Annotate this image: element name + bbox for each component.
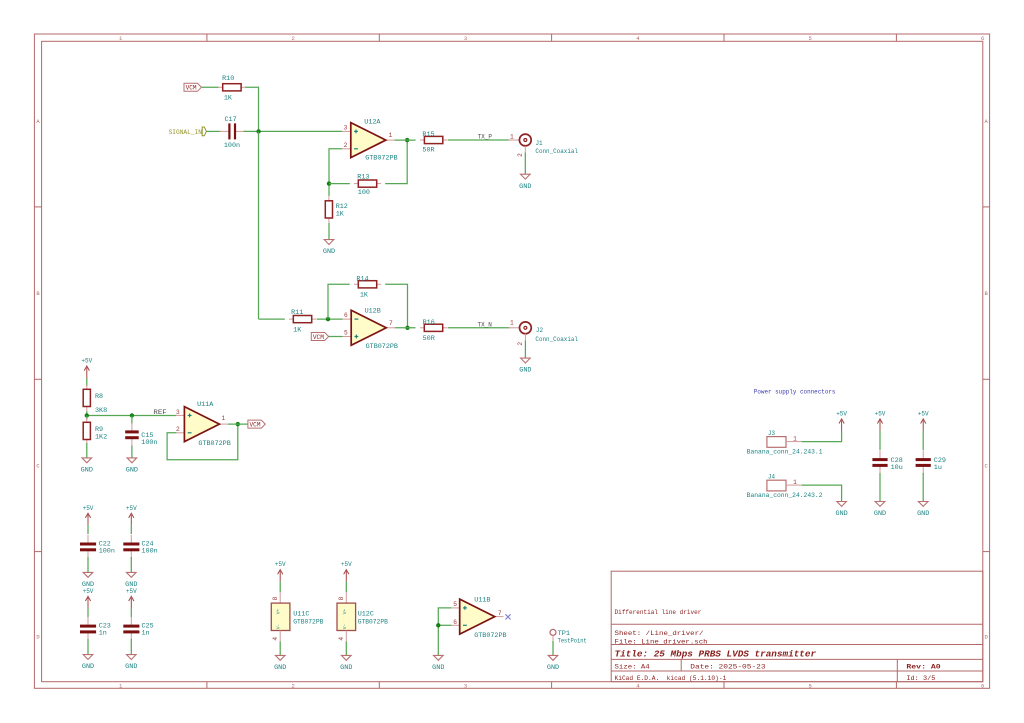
svg-text:2: 2 [291,35,294,42]
svg-text:B: B [985,290,989,297]
svg-text:1: 1 [510,133,514,140]
svg-text:8: 8 [272,596,279,600]
power +5V above U12C [345,571,347,582]
svg-text:V-: V- [342,624,348,630]
svg-text:Power supply connectors: Power supply connectors [754,389,836,396]
svg-text:GND: GND [274,664,286,671]
svg-text:GTB072PB: GTB072PB [474,632,506,640]
svg-text:+5V: +5V [81,358,92,365]
ground under U12C [342,655,352,660]
resistor R15 [420,139,424,141]
resistor R8 [86,385,88,390]
wire TP1 to GND [552,641,554,655]
svg-text:5: 5 [809,682,812,689]
test point TP1 [550,629,556,635]
pin 4 stub U12C [345,631,347,642]
svg-text:7: 7 [498,610,502,617]
svg-text:V+: V+ [342,609,348,615]
svg-text:1K2: 1K2 [95,434,107,442]
capacitor C28 [879,451,881,460]
svg-text:50R: 50R [422,146,434,154]
wire R15 to J1 (net TX_P) [448,139,510,141]
wire U11B inputs tied [438,608,451,641]
svg-text:6: 6 [344,312,348,319]
global label VCM (R10 input) [184,83,201,91]
wire U12A pin 2 feedback [329,149,342,196]
svg-text:C: C [985,463,989,470]
svg-text:Id: 3/5: Id: 3/5 [906,675,935,683]
svg-text:Differential line driver: Differential line driver [615,609,702,616]
wire J1 shield to GND [524,153,526,175]
wire C15 to GND [131,446,133,458]
banana connector J4 [767,480,786,491]
svg-text:+5V: +5V [83,588,94,595]
svg-text:TX_N: TX_N [478,321,492,329]
svg-text:VCM: VCM [313,334,324,341]
banana connector J3 [767,437,786,448]
svg-text:GND: GND [836,510,848,517]
svg-text:1u: 1u [934,464,942,472]
svg-text:R14: R14 [356,275,368,283]
pin 4 stub U11C [279,631,281,642]
junction C17/R10 node [256,129,260,133]
svg-text:GTB072PB: GTB072PB [198,440,230,448]
op-amp U11B [451,607,460,609]
pin 1 stub J3 [786,441,802,443]
pin 2 stub J1 [524,146,526,153]
title block column lines [680,659,682,671]
ground under C15 [127,458,137,463]
svg-text:SIGNAL_IN: SIGNAL_IN [169,129,202,136]
svg-text:GTB072PB: GTB072PB [293,618,323,626]
op-amp power unit U12C [337,603,356,630]
svg-text:KiCad E.D.A. kicad (5.1.10)-1: KiCad E.D.A. kicad (5.1.10)-1 [615,675,727,683]
wire U11B node to GND [437,641,439,655]
svg-text:6: 6 [453,619,457,626]
svg-text:1K: 1K [360,291,369,299]
ground under C29 [918,502,928,507]
wire +5V to C24 [130,525,132,534]
svg-text:+5V: +5V [126,588,137,595]
wire +5V to C23 [87,608,89,617]
svg-text:Sheet: /Line_driver/: Sheet: /Line_driver/ [615,630,704,638]
capacitor C24 [130,535,132,544]
svg-text:100n: 100n [224,142,240,150]
power +5V above C24 [130,515,132,526]
svg-text:Size: A4: Size: A4 [615,664,650,672]
pin 8 stub U11C [279,592,281,603]
wire C22 to GND [87,557,89,572]
svg-text:TestPoint: TestPoint [558,637,587,644]
resistor R14 [354,283,358,285]
svg-text:Banana_conn_24.243.1: Banana_conn_24.243.1 [747,448,823,455]
svg-text:1n: 1n [99,630,107,638]
svg-text:REF: REF [153,409,166,417]
wire J2 shield to GND [524,341,526,359]
svg-text:4: 4 [272,637,279,641]
svg-text:3K8: 3K8 [95,407,107,415]
pin 1 stub J2 [508,327,519,329]
svg-text:+5V: +5V [83,505,94,512]
wire R8 to node REF [87,411,177,415]
svg-text:3: 3 [344,125,348,132]
svg-text:U12B: U12B [365,308,381,316]
resistor R10 [218,86,222,88]
svg-text:U11A: U11A [197,401,214,409]
pin 2 stub J2 [524,334,526,341]
wire J4 to GND [802,485,842,501]
svg-text:GTB072PB: GTB072PB [365,154,397,162]
title block row lines [611,623,983,625]
svg-text:J3: J3 [768,430,775,437]
svg-text:Rev: A0: Rev: A0 [906,664,940,672]
svg-text:GND: GND [519,367,531,374]
ground under J4 wire [837,502,847,507]
wire +5V to C28 [879,431,881,450]
coaxial connector J1 [519,134,531,146]
junction R8/R9 node [85,413,89,417]
svg-text:R8: R8 [95,393,103,401]
svg-text:GND: GND [81,467,93,474]
svg-text:1: 1 [793,479,797,486]
global label VCM (U12B pin 5) [311,333,328,341]
wire +5V to C22 [87,525,89,534]
svg-text:Date: 2025-05-23: Date: 2025-05-23 [690,664,765,672]
svg-text:U12A: U12A [364,119,381,127]
power +5V above J3 wire [841,420,843,431]
svg-text:D: D [36,634,40,641]
svg-text:2: 2 [517,153,524,157]
svg-text:GND: GND [874,510,886,517]
wire U12C pin 4 to GND [345,642,347,656]
svg-text:10u: 10u [891,464,903,472]
svg-text:GND: GND [82,663,94,670]
power +5V above C25 [130,598,132,609]
wire R16 to J2 (net TX_N) [448,327,510,329]
op-amp power unit U11C [271,603,290,630]
junction feedback node [327,181,331,185]
wire C24 to GND [130,557,132,572]
svg-text:TX_P: TX_P [478,133,492,141]
wire R11 to U12B pin 6 [317,318,343,320]
wire R9 to GND [86,443,88,458]
svg-text:V-: V- [276,624,282,630]
wire J3 to +5V [802,431,842,442]
svg-text:VCM: VCM [186,85,197,92]
svg-text:GND: GND [917,510,929,517]
svg-text:1: 1 [389,132,393,139]
svg-text:R10: R10 [222,75,234,83]
svg-text:GND: GND [519,183,531,190]
junction U11A output [236,422,240,426]
power +5V above C29 [922,420,924,431]
svg-text:Conn_Coaxial: Conn_Coaxial [535,336,578,343]
svg-text:File: Line_driver.sch: File: Line_driver.sch [615,638,708,646]
svg-text:3: 3 [464,682,467,689]
svg-text:50R: 50R [423,335,435,343]
resistor R12 [328,196,330,201]
svg-text:6: 6 [981,35,984,42]
power +5V above C22 [87,515,89,526]
ground under C25 [127,655,137,660]
svg-text:GND: GND [125,663,137,670]
op-amp U12B [343,318,352,320]
junction C15 node [130,413,134,417]
svg-text:J1: J1 [536,140,543,147]
frame row ticks right [983,206,990,208]
junction U12A output [405,138,409,142]
svg-text:+5V: +5V [341,561,352,568]
wire up to R14 [328,284,350,319]
ground under C23 [83,655,93,660]
svg-text:+5V: +5V [918,410,929,417]
wire +5V to U11C pin 8 [279,582,281,592]
svg-text:D: D [985,634,989,641]
power +5V above C23 [87,598,89,609]
resistor R13 [354,183,358,185]
svg-text:1n: 1n [142,630,150,638]
svg-text:+5V: +5V [275,561,286,568]
pin stub TP1 [552,635,554,641]
capacitor C23 [87,617,89,626]
svg-text:+5V: +5V [836,410,847,417]
ground under R9 [82,458,92,463]
svg-text:1K: 1K [336,211,345,219]
capacitor C15 [131,423,133,432]
svg-text:Conn_Coaxial: Conn_Coaxial [535,148,578,155]
svg-text:GTB072PB: GTB072PB [366,343,398,351]
svg-text:U11B: U11B [474,596,490,604]
wire feedback node to R13 [329,183,350,185]
svg-text:GND: GND [323,248,335,255]
svg-text:6: 6 [981,682,984,689]
wire +5V to R8 [86,378,88,386]
svg-text:2: 2 [291,682,294,689]
ground under C28 [875,502,885,507]
ground under TP1 [548,655,558,660]
resistor R9 [86,418,88,423]
svg-text:5: 5 [344,330,348,337]
pin 8 stub U12C [345,592,347,603]
junction U12B output [405,326,409,330]
resistor R11 [289,318,293,320]
wire VCM to U12B pin 5 [329,336,343,338]
svg-text:100n: 100n [141,439,157,447]
svg-text:A: A [985,118,989,125]
svg-text:Banana_conn_24.243.2: Banana_conn_24.243.2 [747,492,823,499]
wire U11A feedback loop [167,424,238,460]
pin 1 stub J1 [508,139,519,141]
svg-text:5: 5 [809,35,812,42]
svg-text:1: 1 [793,435,797,442]
svg-text:5: 5 [453,601,457,608]
ground under R12 [324,240,334,245]
wire C25 to GND [130,639,132,655]
svg-text:4: 4 [338,637,345,641]
wire R10 to vertical bus [245,87,258,131]
power +5V above R8 [86,368,88,379]
svg-text:2: 2 [344,142,348,149]
power +5V above C28 [879,420,881,431]
svg-text:C17: C17 [225,116,237,124]
no-connect flag U11B output [505,614,510,619]
svg-text:1K: 1K [224,95,233,103]
wire junction to pin 6 [438,624,451,626]
ground under U11B [434,655,444,660]
svg-text:U11C: U11C [293,611,309,619]
ground under J2 [521,358,531,363]
global label VCM (U11A output) [248,420,265,428]
coaxial connector J2 [520,322,532,334]
wire node to C15 [131,416,133,425]
capacitor C22 [87,535,89,544]
wire vertical bus to lower stage [258,131,260,319]
ground under U11C [275,655,285,660]
frame column ticks top [206,34,208,41]
svg-text:7: 7 [389,320,393,327]
wire VCM to R10 [202,86,219,88]
wire R12 to GND [328,223,330,240]
wire U12B output to R16 [395,327,416,329]
svg-text:R16: R16 [423,319,435,327]
svg-text:100n: 100n [99,547,115,555]
svg-text:J2: J2 [536,327,543,334]
svg-text:3: 3 [176,409,180,416]
pin 1 stub J4 [786,484,802,486]
svg-text:+5V: +5V [126,505,137,512]
wire C28 to GND [879,473,881,502]
capacitor C25 [130,617,132,626]
wire SIGNAL_IN to C17 [206,130,221,132]
svg-text:A: A [36,118,40,125]
svg-text:100: 100 [358,189,370,197]
svg-text:8: 8 [338,596,345,600]
svg-text:C: C [36,463,40,470]
capacitor C17 [219,130,229,132]
svg-text:Title: 25 Mbps PRBS LVDS trans: Title: 25 Mbps PRBS LVDS transmitter [615,649,817,660]
svg-text:R11: R11 [291,309,303,317]
title block outline [611,571,983,682]
op-amp U12A [342,130,351,132]
wire U12A output to R15 [395,139,416,141]
svg-text:R13: R13 [357,174,369,182]
svg-text:GND: GND [432,664,444,671]
svg-text:J4: J4 [768,474,775,481]
wire bus corner to R11 [259,318,285,320]
wire R14 to U12B output node [385,284,407,328]
svg-text:+5V: +5V [875,410,886,417]
svg-text:GND: GND [547,664,559,671]
svg-text:1: 1 [510,319,514,326]
capacitor C29 [922,451,924,460]
wire R13 to output node [385,140,407,184]
svg-text:2: 2 [176,426,180,433]
svg-text:2: 2 [517,342,524,346]
wire C29 to GND [922,473,924,502]
ground under C24 [127,572,137,577]
wire U11C pin 4 to GND [279,642,281,656]
svg-text:TP1: TP1 [558,630,571,637]
svg-text:GTB072PB: GTB072PB [358,618,388,626]
junction R11/R14 node [326,317,330,321]
frame row ticks left [34,206,41,208]
wire +5V to U12C pin 8 [345,582,347,592]
wire U11A output to VCM label [228,423,248,425]
svg-text:1K: 1K [293,326,302,334]
svg-text:1: 1 [222,415,226,422]
svg-text:GND: GND [340,664,352,671]
svg-text:R15: R15 [422,131,434,139]
svg-text:U12C: U12C [358,611,374,619]
svg-text:100n: 100n [142,547,158,555]
junction U11B input node [436,623,440,627]
wire C17 to U12A pin 3 [244,130,343,132]
svg-text:VCM: VCM [250,422,261,429]
svg-text:B: B [36,290,40,297]
ground under C22 [83,572,93,577]
resistor R16 [420,327,424,329]
ground under J1 [521,174,531,179]
op-amp U11A [176,414,185,416]
svg-text:V+: V+ [276,609,282,615]
wire +5V to C29 [922,431,924,450]
svg-text:3: 3 [464,35,467,42]
wire +5V to C25 [130,608,132,617]
power +5V above U11C [279,571,281,582]
wire C23 to GND [87,639,89,655]
svg-text:GND: GND [126,467,138,474]
frame column ticks bottom [206,682,208,689]
